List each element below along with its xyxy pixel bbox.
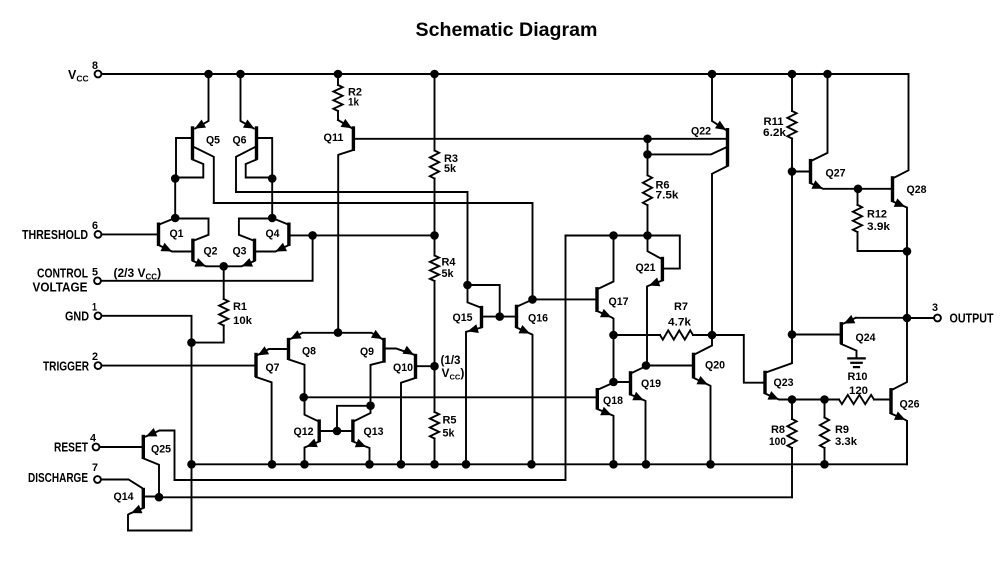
svg-text:Q28: Q28 [907,184,927,196]
svg-text:CONTROL: CONTROL [37,267,88,281]
wire Q15 collector to bases [468,285,500,316]
svg-text:120: 120 [849,385,868,397]
svg-text:Q17: Q17 [609,296,629,308]
junction Q5 base/hook [171,174,180,183]
junction on Vcc rail [204,70,213,79]
wire base hook to Q13 collector [337,406,370,431]
svg-text:6: 6 [92,220,98,232]
transistor Q17 [597,236,629,383]
resistor R11 [763,74,797,172]
transistor Q3 [224,219,271,267]
junction Q8/Q12 collectors [299,393,308,402]
resistor R10 [825,371,889,404]
svg-text:3.9k: 3.9k [867,221,891,233]
junction R9 top [820,395,829,404]
svg-text:R5: R5 [443,415,457,427]
svg-text:R4: R4 [442,257,457,269]
transistor Q27 [792,74,857,189]
junction Q16 collector node [528,295,537,304]
pin number 1 [92,302,97,314]
junction Q12/Q13 bases [333,427,342,436]
resistor R8 [769,400,797,498]
junction Q24 base node [788,330,797,339]
junction Q2/Q3 emitters [219,262,228,271]
junction ground bus at R5 [430,460,439,469]
terminal pin 1 (GND) [95,312,102,319]
junction R3/R4 (2/3 Vcc) [430,231,439,240]
wire Q5 collector east (flip-flop line A) [214,202,533,204]
wire lineA down to Q16 collector [532,203,534,299]
transistor Q7 [256,346,287,464]
svg-text:7.5k: 7.5k [656,190,680,202]
svg-text:Q14: Q14 [114,491,135,503]
wire between base dots [647,139,649,155]
wire R8 node to R9 node [792,399,825,401]
junction ground bus at Q13 [365,460,374,469]
pin number 2 [92,351,98,363]
svg-text:R9: R9 [835,424,849,436]
pin label GND [65,310,89,324]
transistor Q22 [691,74,728,335]
wire R11 node down to Q24 base node [791,172,793,335]
pin number 4 [90,433,97,445]
transistor Q9 [338,330,413,406]
net label (2/3 Vcc) [114,266,162,282]
transistor Q20 [646,335,725,464]
svg-text:Q25: Q25 [151,444,171,456]
transistor Q16 [500,300,548,465]
terminal pin 3 (OUTPUT) [934,315,941,322]
junction ground bus at Q10 [397,460,406,469]
svg-text:Q22: Q22 [691,126,711,138]
transistor Q25 [143,428,174,497]
wire Q5 node down to Q1 collector [174,179,176,219]
junction ground bus at Q20 [706,460,715,469]
svg-text:Schematic Diagram: Schematic Diagram [416,19,598,41]
resistor R9 [820,400,858,465]
pin number 3 [932,302,938,314]
wire Q16 collector node to Q17 base [533,298,596,300]
svg-text:Q5: Q5 [206,135,220,147]
terminal pin 8 (Vcc) [95,71,102,78]
junction Q22 base lower [643,150,652,159]
wire Q8-collector line to Q18 base [304,396,596,398]
junction ground bus at GND [187,460,196,469]
junction R4/R5 (1/3 Vcc) [430,362,439,371]
wire Q11 base to Q22 base [353,138,725,140]
junction ground bus at Q12 [300,460,309,469]
junction Q13 collector node [366,401,375,410]
resistor R5 [430,366,457,464]
resistor R12 [853,189,907,251]
transistor Q10 [393,346,435,465]
svg-text:Q12: Q12 [294,426,314,438]
pin label THRESHOLD [22,228,88,242]
svg-text:5k: 5k [442,268,455,280]
junction ground bus at R9 [820,460,829,469]
wire lineB down to Q15 [468,192,481,307]
svg-text:Q11: Q11 [324,132,344,144]
svg-text:Q24: Q24 [856,332,877,344]
svg-text:RESET: RESET [54,441,88,455]
svg-text:2: 2 [92,351,98,363]
svg-text:Q15: Q15 [453,312,473,324]
junction Q4 collector [268,214,277,223]
terminal pin 4 (RESET) [93,444,100,451]
wire output column [906,251,908,318]
wire flipflop top line [566,236,680,269]
transistor Q15 [453,306,500,464]
junction R7 left / Q17 emitter [609,331,618,340]
pin label Vcc [68,68,89,84]
wire control voltage to 2/3Vcc node [101,235,313,280]
pin number 7 [92,462,98,474]
junction Q15 collector node [463,281,472,290]
junction on Vcc rail [334,70,343,79]
wire R7 node to Q23 base [712,335,763,383]
transistor Q13 [337,406,383,465]
svg-text:5k: 5k [443,428,456,440]
junction ground bus at Q19 [642,460,651,469]
junction Q22 base upper [643,135,652,144]
junction Q19/Q20/Q21 node [642,361,651,370]
pin label RESET [54,441,88,455]
junction Q25/Q14 collectors [155,493,164,502]
wire OUTPUT node to terminal [907,317,934,319]
junction R12 / Q28 emitter [903,247,912,256]
pin label OUTPUT [950,312,994,326]
transistor Q12 [294,397,337,464]
junction R6/Q21 node [643,231,652,240]
svg-text:R12: R12 [867,209,887,221]
title text [416,19,598,41]
resistor R2 [333,74,362,120]
transistor Q28 [858,74,926,252]
junction Q17 collector [609,231,618,240]
transistor Q6 [233,74,273,192]
svg-text:OUTPUT: OUTPUT [950,312,994,326]
junction ground bus at Q15 [462,460,471,469]
svg-text:R10: R10 [848,371,868,383]
svg-text:Q8: Q8 [302,346,316,358]
junction R11 / Q27 base [788,167,797,176]
svg-text:10k: 10k [233,315,253,327]
node ground bus [192,421,908,464]
terminal pin 5 (CONTROL VOLTAGE) [94,277,101,284]
wire Q6 collector east (flip-flop line B) [236,191,468,193]
junction Q6 base/hook [268,174,277,183]
resistor R4 [430,235,456,366]
net label (1/3 [441,353,461,367]
net label Vcc) [442,366,465,382]
terminal pin 2 (TRIGGER) [95,362,102,369]
pin number 5 [92,267,98,279]
pin label CONTROL [37,267,88,281]
wire Q22 lower base lead [648,148,726,155]
svg-text:Q26: Q26 [900,399,920,411]
junction 2/3Vcc tap [308,231,317,240]
wire Q6 node down to Q4 collector [271,179,273,219]
wire THRESHOLD to Q1 base [102,233,157,235]
svg-text:4: 4 [90,433,97,445]
resistor R7 [614,301,712,340]
junction on Vcc rail [236,70,245,79]
pin number 8 [92,60,98,72]
svg-text:Q7: Q7 [266,362,280,374]
ground symbol [848,358,864,367]
svg-text:1: 1 [92,302,97,314]
junction on Vcc rail [708,70,717,79]
junction ground bus at Q16 [527,460,536,469]
svg-text:Q6: Q6 [233,135,247,147]
svg-text:Q23: Q23 [774,377,794,389]
transistor Q8 [289,330,338,397]
wire RESET to Q25 base [100,446,142,448]
transistor Q2 [176,219,223,267]
svg-text:VOLTAGE: VOLTAGE [33,281,88,295]
svg-text:7: 7 [92,462,98,474]
junction Q15/Q16 bases [495,312,504,321]
wire discharge-collector line [159,496,792,498]
junction R1/GND [187,338,196,347]
junction on Vcc rail [788,70,797,79]
svg-text:5: 5 [92,267,98,279]
svg-text:Q1: Q1 [170,228,184,240]
junction Q8/Q9 emitters [334,328,343,337]
svg-text:R8: R8 [771,424,785,436]
pin label VOLTAGE [33,281,88,295]
transistor Q18 [597,383,623,465]
svg-text:GND: GND [65,310,89,324]
svg-text:8: 8 [92,60,98,72]
wire TRIGGER to Q7 base [102,365,255,367]
wire Q4 base to divider node [291,234,435,236]
transistor Q4 [256,218,289,252]
svg-text:Q10: Q10 [393,362,413,374]
junction Q27 emitter / Q28 base / R12 [854,185,863,194]
transistor Q23 [763,335,793,400]
transistor Q26 [891,318,920,464]
svg-text:Q27: Q27 [826,168,846,180]
transistor Q11 [324,119,354,333]
svg-text:Q16: Q16 [528,313,548,325]
svg-text:Q4: Q4 [266,228,281,240]
resistor R6 [643,154,680,235]
pin number 6 [92,220,98,232]
resistor R3 [430,74,458,235]
transistor Q14 [114,465,192,531]
junction R8 top [788,395,797,404]
pin label DISCHARGE [28,471,88,485]
node Vcc rail (pin 8 bus) [102,73,909,75]
svg-text:5k: 5k [444,163,457,175]
svg-text:Q21: Q21 [636,262,656,274]
svg-text:100: 100 [769,436,786,448]
svg-text:3: 3 [932,302,938,314]
svg-text:Q9: Q9 [360,346,374,358]
svg-text:Q20: Q20 [705,360,725,372]
wire DISCHARGE to Q14 base [101,480,142,488]
svg-text:R7: R7 [674,301,688,313]
transistor Q1 [159,218,192,252]
wire GND down to ground bus [102,316,192,465]
svg-text:TRIGGER: TRIGGER [43,360,89,374]
terminal pin 7 (DISCHARGE) [94,476,101,483]
svg-text:6.2k: 6.2k [763,127,787,139]
junction ground bus at Q7 [268,460,277,469]
junction Q1 collector [171,214,180,223]
svg-text:(1/3: (1/3 [441,353,461,367]
junction R7 right / Q22 collector [708,331,717,340]
svg-text:3.3k: 3.3k [835,436,858,448]
svg-text:Q3: Q3 [233,246,247,258]
terminal pin 6 (THRESHOLD) [95,231,102,238]
svg-text:Q19: Q19 [641,378,661,390]
junction on Vcc rail [430,70,439,79]
svg-text:Q13: Q13 [364,426,384,438]
resistor R1 [192,266,253,342]
svg-text:R1: R1 [233,301,247,313]
pin label TRIGGER [43,360,89,374]
svg-text:DISCHARGE: DISCHARGE [28,471,88,485]
transistor Q21 [636,236,663,365]
svg-text:1k: 1k [348,97,360,109]
junction Q18 collector / Q19 base [609,378,618,387]
junction on Vcc rail [823,70,832,79]
svg-text:4.7k: 4.7k [668,317,692,329]
svg-text:Q18: Q18 [603,395,623,407]
junction ground bus at Q18 [609,460,618,469]
transistor Q19 [614,366,661,464]
wire flipflop node down to Q25 emitter line [175,236,566,481]
svg-text:THRESHOLD: THRESHOLD [22,228,88,242]
junction OUTPUT node [903,314,912,323]
transistor Q5 [176,74,220,203]
svg-text:Q2: Q2 [204,246,218,258]
transistor Q24 [792,315,906,358]
